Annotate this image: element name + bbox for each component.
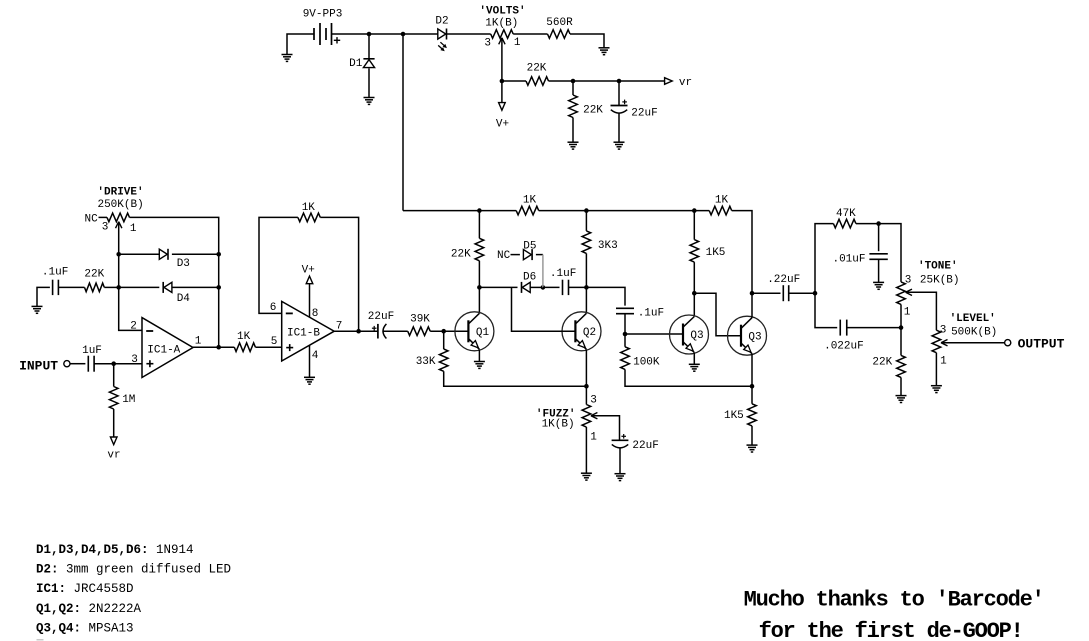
pin 3 FUZZ bbox=[590, 395, 597, 407]
capacitor 1uF input bbox=[88, 356, 94, 372]
svg-text:22uF: 22uF bbox=[631, 108, 657, 120]
label 1K rail right bbox=[715, 195, 729, 207]
svg-text:1: 1 bbox=[590, 432, 597, 444]
wire 560R to ground bbox=[570, 34, 604, 48]
label 22K input leg bbox=[84, 268, 104, 280]
wire Q1 emitter to ground bbox=[478, 349, 480, 361]
junction right rail D4 bbox=[216, 285, 221, 290]
svg-text:22K: 22K bbox=[527, 63, 547, 75]
resistor 3K3 bbox=[582, 231, 591, 254]
svg-text:Q2: Q2 bbox=[583, 327, 596, 339]
capacitor .1uF series bbox=[563, 280, 569, 295]
label 'LEVEL' bbox=[950, 313, 996, 325]
note thanks line 1 bbox=[744, 587, 1044, 612]
ground IC1-B pin4 bbox=[304, 377, 315, 384]
junction Q2 emitter node bbox=[584, 384, 589, 389]
svg-text:1K: 1K bbox=[715, 195, 729, 207]
junction right rail D3 bbox=[216, 252, 221, 257]
resistor 22K divider bbox=[569, 95, 578, 118]
V+ arrow top bbox=[499, 103, 506, 111]
ground battery bbox=[282, 55, 293, 62]
svg-text:1: 1 bbox=[195, 336, 202, 348]
note faint mark bbox=[37, 639, 44, 641]
svg-text:OUTPUT: OUTPUT bbox=[1018, 337, 1065, 352]
label 22K divider bbox=[583, 104, 603, 116]
wire 22K to Q1 collector node bbox=[478, 261, 480, 288]
svg-text:3: 3 bbox=[102, 221, 109, 233]
potentiometer VOLTS 1K(B) bbox=[491, 30, 514, 39]
svg-text:D3: D3 bbox=[177, 258, 190, 270]
junction wiper/D3 bbox=[116, 252, 121, 257]
svg-text:D6: D6 bbox=[523, 271, 536, 283]
label 1K5 Q4 emitter bbox=[724, 410, 744, 422]
svg-text:for the first de-GOOP!: for the first de-GOOP! bbox=[759, 619, 1023, 641]
svg-text:47K: 47K bbox=[836, 208, 856, 220]
pin 5 IC1-B bbox=[271, 336, 278, 348]
label D2 bbox=[435, 16, 448, 28]
svg-text:8: 8 bbox=[312, 308, 319, 320]
label .022uF bbox=[824, 341, 864, 353]
ground Q1 emitter bbox=[474, 362, 485, 369]
label vr top bbox=[679, 77, 692, 89]
wiper arrow VOLTS bbox=[499, 38, 505, 45]
capacitor .1uF interstage bbox=[616, 308, 634, 313]
label 22K Q1 collector bbox=[451, 249, 471, 261]
wire battery negative to ground bbox=[287, 34, 314, 55]
svg-text:V+: V+ bbox=[302, 264, 315, 276]
label Q2 bbox=[583, 327, 596, 339]
label .1uF interstage bbox=[638, 307, 664, 319]
note parts list Q1,Q2: bbox=[36, 602, 142, 616]
wire divider to 22K bbox=[572, 81, 574, 95]
junction Q2 collector node bbox=[584, 285, 589, 290]
svg-text:22K: 22K bbox=[583, 104, 603, 116]
wire Q2 emitter to FUZZ bbox=[585, 386, 587, 404]
svg-text:.22uF: .22uF bbox=[767, 274, 800, 286]
svg-text:2: 2 bbox=[130, 321, 137, 333]
terminal INPUT bbox=[64, 361, 70, 367]
wire 47K to TONE pin3 bbox=[856, 224, 901, 282]
junction 47K/.01uF bbox=[876, 221, 881, 226]
label 22K tone bbox=[872, 357, 892, 369]
svg-text:3: 3 bbox=[131, 354, 138, 366]
wire 22uF to ground bbox=[618, 114, 620, 143]
label .1uF series bbox=[550, 268, 576, 280]
pin 1 VOLTS bbox=[514, 37, 521, 49]
svg-text:1: 1 bbox=[130, 223, 137, 235]
svg-text:1: 1 bbox=[514, 37, 521, 49]
wire .22uF to tone node bbox=[789, 292, 815, 294]
wire D6 to node bbox=[530, 286, 543, 288]
label 1K rail left bbox=[523, 195, 537, 207]
wire VOLTS wiper down bbox=[501, 38, 503, 81]
wire 33K to fuzz bus bbox=[444, 371, 587, 386]
wire .01uF to ground bbox=[878, 259, 880, 282]
label 1K5 Q3 collector bbox=[706, 247, 726, 259]
pin 4 IC1-B bbox=[312, 350, 319, 362]
wire 1K5 to ground bbox=[751, 426, 753, 445]
resistor 39K bbox=[408, 327, 431, 336]
svg-text:D2: D2 bbox=[435, 16, 448, 28]
diode D6 bbox=[522, 282, 531, 293]
svg-text:IC1-B: IC1-B bbox=[287, 327, 320, 339]
svg-text:'VOLTS': 'VOLTS' bbox=[479, 6, 525, 18]
wire node up to 47K bbox=[815, 224, 833, 294]
wire TONE wiper to LEVEL bbox=[906, 292, 937, 330]
pin 3 TONE bbox=[905, 274, 912, 286]
resistor 1K feedback bbox=[298, 213, 320, 222]
wire V+ stub bbox=[501, 81, 503, 103]
transistor Q1 bbox=[455, 312, 494, 351]
wire D1 to ground bbox=[368, 68, 370, 97]
svg-text:3: 3 bbox=[590, 395, 597, 407]
wire D2 to VOLTS pot bbox=[447, 33, 491, 35]
svg-text:1K(B): 1K(B) bbox=[485, 18, 518, 30]
wire Q1 node to D6 bbox=[479, 286, 517, 288]
label V+ IC1-B bbox=[302, 264, 315, 276]
resistor 1M bbox=[109, 387, 118, 410]
label 3K3 bbox=[598, 240, 618, 252]
label 500K(B) bbox=[951, 326, 997, 338]
diode D4 bbox=[163, 282, 172, 293]
wire NC stub DRIVE bbox=[99, 216, 108, 218]
wire supply rail left bbox=[403, 210, 516, 212]
svg-text:1uF: 1uF bbox=[82, 345, 102, 357]
junction TONE pin1 node bbox=[899, 325, 904, 330]
wire node to Q3 base bbox=[625, 333, 683, 335]
potentiometer DRIVE 250K(B) bbox=[107, 213, 130, 222]
junction 22uF node bbox=[617, 79, 622, 84]
pin 1 LEVEL bbox=[940, 356, 947, 368]
svg-text:500K(B): 500K(B) bbox=[951, 326, 997, 338]
resistor 1K rail right bbox=[709, 206, 732, 215]
label 1K(B) FUZZ bbox=[542, 418, 575, 430]
ground D1 bbox=[364, 98, 375, 105]
junction Q1 collector node bbox=[477, 285, 482, 290]
svg-text:'DRIVE': 'DRIVE' bbox=[97, 187, 143, 199]
wire node to 33K bbox=[443, 331, 445, 349]
junction 22K divider node bbox=[571, 79, 576, 84]
wire VOLTS pin1 to 560R bbox=[513, 33, 547, 35]
wire DRIVE pin1 right rail bbox=[130, 217, 219, 347]
wire IC1-B feedback left bbox=[259, 217, 298, 313]
svg-text:Q3,Q4: MPSA13: Q3,Q4: MPSA13 bbox=[36, 621, 134, 635]
note parts list D1,D3,D4,D5,D6: bbox=[36, 543, 194, 557]
wire node to .1uF bbox=[543, 286, 560, 288]
wire 1M to vr bbox=[113, 409, 115, 437]
wire INPUT to 1uF bbox=[70, 363, 85, 365]
svg-text:3: 3 bbox=[905, 274, 912, 286]
wire node down to .022uF bbox=[815, 293, 837, 327]
svg-text:250K(B): 250K(B) bbox=[97, 199, 143, 211]
label 1K(B) VOLTS bbox=[485, 18, 518, 30]
wire Q2 collector bbox=[585, 287, 587, 313]
wire D5 cathode bbox=[536, 254, 543, 256]
vr arrow right bbox=[665, 78, 673, 85]
transistor Q3 bbox=[670, 315, 709, 354]
pin 2 IC1-A bbox=[130, 321, 137, 333]
svg-text:D2: 3mm green diffused LED: D2: 3mm green diffused LED bbox=[36, 563, 231, 577]
diode D5 bbox=[523, 249, 532, 260]
wire .022uF to TONE pin1 node bbox=[847, 327, 901, 329]
resistor 22K tone bbox=[897, 355, 906, 377]
label 'DRIVE' bbox=[97, 187, 143, 199]
label 39K bbox=[410, 314, 430, 326]
label 'TONE' bbox=[918, 261, 958, 273]
svg-text:NC: NC bbox=[84, 214, 98, 226]
junction tone input node bbox=[813, 291, 818, 296]
wiper arrow FUZZ bbox=[591, 413, 598, 419]
svg-text:D1,D3,D4,D5,D6: 1N914: D1,D3,D4,D5,D6: 1N914 bbox=[36, 543, 194, 557]
note parts list IC1: bbox=[36, 582, 134, 596]
wire Q3 collector to Q4 base bbox=[694, 293, 741, 336]
capacitor .1uF input leg bbox=[53, 280, 59, 295]
pin 7 IC1-B bbox=[336, 320, 343, 332]
svg-text:22K: 22K bbox=[872, 357, 892, 369]
wire to .01uF bbox=[878, 224, 880, 252]
label Q3 bbox=[690, 330, 703, 342]
label D3 bbox=[177, 258, 190, 270]
svg-text:.1uF: .1uF bbox=[550, 268, 576, 280]
wire rail to Q4 collector bbox=[732, 211, 752, 294]
wire 1K5 to Q3 collector node bbox=[693, 262, 695, 293]
resistor 1K5 Q3 collector bbox=[690, 240, 699, 263]
label 1K feedback bbox=[302, 202, 316, 214]
svg-text:22K: 22K bbox=[84, 268, 104, 280]
battery BT1 9V-PP3 bbox=[314, 23, 340, 45]
ground 22uF fuzz bbox=[615, 474, 626, 481]
wire Q4 collector bbox=[751, 293, 753, 318]
pin 8 IC1-B bbox=[312, 308, 319, 320]
wire 22K to node bbox=[104, 286, 118, 288]
svg-text:22uF: 22uF bbox=[632, 440, 658, 452]
wire .1uF to Q2 collector node bbox=[569, 286, 587, 288]
wire ground to .1uF bbox=[37, 287, 50, 306]
junction IC1-A output bbox=[216, 345, 221, 350]
wire V+ node to 22K bbox=[502, 80, 526, 82]
svg-text:39K: 39K bbox=[410, 314, 430, 326]
wire pin8 V+ bbox=[309, 284, 311, 318]
wire battery node to supply rail bbox=[402, 34, 404, 211]
resistor 1K5 Q4 emitter bbox=[748, 404, 757, 426]
label 47K bbox=[836, 208, 856, 220]
wire 1K to IC1-B pin5 bbox=[255, 346, 281, 348]
resistor 1K interstage bbox=[234, 343, 255, 352]
label 22uF coupling bbox=[368, 311, 394, 323]
svg-text:NC: NC bbox=[497, 250, 511, 262]
svg-text:33K: 33K bbox=[416, 356, 436, 368]
wiper arrow LEVEL bbox=[941, 340, 948, 346]
label IC1-B bbox=[287, 327, 320, 339]
junction rail Q2 bbox=[584, 208, 589, 213]
wire D5 to D6 node (grey) bbox=[542, 255, 544, 288]
wire pin4 to ground bbox=[309, 345, 311, 377]
junction Q1 base node bbox=[441, 329, 446, 334]
wire Q2 emitter bbox=[585, 349, 587, 386]
junction Q4 emitter node bbox=[750, 384, 755, 389]
resistor 22K Q1 collector bbox=[475, 238, 484, 260]
wire Q3 collector bbox=[693, 293, 695, 316]
junction V+ node bbox=[500, 79, 505, 84]
wire FUZZ pin1 to ground bbox=[585, 427, 587, 473]
pin 6 IC1-B bbox=[270, 302, 277, 314]
wire Q4 collector to .22uF bbox=[752, 292, 781, 294]
capacitor .022uF bbox=[840, 320, 847, 336]
pin 3 LEVEL bbox=[940, 324, 947, 336]
svg-text:IC1-A: IC1-A bbox=[147, 345, 180, 357]
svg-text:Mucho thanks to 'Barcode': Mucho thanks to 'Barcode' bbox=[744, 587, 1044, 612]
svg-text:'LEVEL': 'LEVEL' bbox=[950, 313, 996, 325]
junction Q3 base node bbox=[623, 332, 628, 337]
wire node to 22K tone bbox=[900, 328, 902, 356]
ground LEVEL bbox=[931, 386, 942, 393]
potentiometer LEVEL 500K(B) bbox=[932, 330, 941, 353]
svg-text:.1uF: .1uF bbox=[42, 267, 68, 279]
junction Q3 collector node bbox=[692, 291, 697, 296]
label 'VOLTS' bbox=[479, 6, 525, 18]
capacitor .22uF output bbox=[783, 285, 788, 301]
svg-text:100K: 100K bbox=[633, 356, 660, 368]
svg-text:6: 6 bbox=[270, 302, 277, 314]
wire Q2 node to .1uF interstage bbox=[586, 287, 625, 305]
ground .1uF input bbox=[32, 306, 43, 313]
svg-text:9V-PP3: 9V-PP3 bbox=[303, 9, 343, 21]
svg-text:1: 1 bbox=[904, 307, 911, 319]
transistor Q4 bbox=[728, 316, 767, 355]
potentiometer TONE 25K(B) bbox=[897, 282, 906, 305]
svg-text:560R: 560R bbox=[546, 17, 573, 29]
label 'FUZZ' bbox=[536, 409, 576, 421]
junction D5/D6 node bbox=[541, 285, 546, 290]
note parts list Q3,Q4: bbox=[36, 621, 134, 635]
ground 22K divider bbox=[568, 142, 579, 149]
wire to D3 bbox=[119, 253, 160, 255]
label V+ top bbox=[496, 119, 509, 131]
svg-text:1K: 1K bbox=[523, 195, 537, 207]
svg-text:INPUT: INPUT bbox=[19, 359, 58, 374]
potentiometer FUZZ 1K(B) bbox=[582, 405, 591, 428]
wire supply rail right bbox=[539, 210, 710, 212]
wire IC1-A output bbox=[193, 346, 234, 348]
svg-text:1: 1 bbox=[940, 356, 947, 368]
pin 1 TONE bbox=[904, 307, 911, 319]
svg-text:1M: 1M bbox=[122, 394, 135, 406]
label OUTPUT bbox=[1018, 337, 1065, 352]
label 22K vref series bbox=[527, 63, 547, 75]
ground 560R bbox=[599, 48, 610, 55]
label 22uF vref bbox=[631, 108, 657, 120]
label 1M bbox=[122, 394, 135, 406]
wire 3K3 to Q2 collector node bbox=[585, 253, 587, 287]
wire emitter node to 1K5 bbox=[751, 386, 753, 404]
junction rail Q3 bbox=[692, 208, 697, 213]
note thanks line 2 bbox=[759, 619, 1023, 641]
svg-text:1K5: 1K5 bbox=[706, 247, 726, 259]
junction input bias node bbox=[111, 361, 116, 366]
svg-text:.022uF: .022uF bbox=[824, 341, 864, 353]
svg-text:Q3: Q3 bbox=[748, 331, 761, 343]
svg-text:22K: 22K bbox=[451, 249, 471, 261]
svg-text:Q1: Q1 bbox=[476, 327, 490, 339]
pin 3 IC1-A bbox=[131, 354, 138, 366]
svg-text:5: 5 bbox=[271, 336, 278, 348]
wire DRIVE wiper down bbox=[119, 222, 142, 330]
label D4 bbox=[177, 293, 191, 305]
svg-text:Q1,Q2: 2N2222A: Q1,Q2: 2N2222A bbox=[36, 602, 142, 616]
svg-text:Q3: Q3 bbox=[690, 330, 703, 342]
wiper arrow DRIVE bbox=[116, 222, 122, 229]
wire IC1-B output bbox=[334, 330, 378, 332]
junction IC1-B output bbox=[356, 329, 361, 334]
svg-text:3K3: 3K3 bbox=[598, 240, 618, 252]
op-amp IC1-A bbox=[142, 318, 193, 378]
label 1uF bbox=[82, 345, 102, 357]
label INPUT bbox=[19, 359, 58, 374]
junction rail Q1 bbox=[477, 208, 482, 213]
pin 1 DRIVE bbox=[130, 223, 137, 235]
wire Q4 emitter bbox=[751, 354, 753, 387]
svg-text:1K5: 1K5 bbox=[724, 410, 744, 422]
svg-text:'TONE': 'TONE' bbox=[918, 261, 958, 273]
svg-text:4: 4 bbox=[312, 350, 319, 362]
ground 22K tone bbox=[896, 396, 907, 403]
wiper arrow TONE bbox=[906, 289, 913, 295]
wire 39K to Q1 base bbox=[430, 330, 468, 332]
V+ arrow IC1-B bbox=[306, 276, 313, 284]
label Q4 bbox=[748, 331, 761, 343]
wire 22uF to 39K bbox=[383, 330, 408, 332]
pin 3 VOLTS bbox=[484, 37, 491, 49]
resistor 560R bbox=[548, 30, 571, 39]
svg-text:22uF: 22uF bbox=[368, 311, 394, 323]
wire 1uF to IC1-A pin3 bbox=[94, 363, 142, 365]
resistor 1K rail left bbox=[516, 206, 539, 215]
wire Q3 emitter to ground bbox=[693, 353, 695, 365]
label D5 bbox=[523, 241, 536, 253]
label NC drive bbox=[84, 214, 98, 226]
wire 22K tone to ground bbox=[900, 377, 902, 395]
wire Q1 collector bbox=[478, 287, 480, 313]
svg-text:D1: D1 bbox=[349, 58, 363, 70]
wire node to 22uF bbox=[618, 81, 620, 106]
wire NC stub D5 bbox=[511, 254, 520, 256]
label 22uF fuzz bypass bbox=[632, 440, 658, 452]
junction Q4 collector node bbox=[750, 291, 755, 296]
capacitor 22uF fuzz bypass bbox=[612, 434, 629, 448]
wire D3 to rail bbox=[172, 253, 219, 255]
wire LEVEL pin1 to ground bbox=[935, 353, 937, 386]
svg-text:3: 3 bbox=[484, 37, 491, 49]
LED D2 emission arrows bbox=[438, 42, 447, 51]
wire D4 to rail bbox=[172, 286, 219, 288]
capacitor 22uF coupling bbox=[372, 324, 387, 339]
wire 100K to emitter bus bbox=[625, 369, 752, 386]
junction wiper/D4 bbox=[116, 285, 121, 290]
wire to D4 bbox=[119, 286, 160, 288]
label 100K bbox=[633, 356, 660, 368]
ground .01uF bbox=[873, 282, 884, 289]
label 560R bbox=[546, 17, 573, 29]
label 250K(B) bbox=[97, 199, 143, 211]
ground 1K5 Q4 bbox=[747, 445, 758, 452]
wire .1uF to Q3 base node bbox=[624, 314, 626, 334]
resistor 33K bbox=[439, 349, 448, 371]
label D1 bbox=[349, 58, 363, 70]
label 9V-PP3 bbox=[303, 9, 343, 21]
svg-text:vr: vr bbox=[679, 77, 692, 89]
resistor 22K input leg bbox=[85, 283, 105, 292]
junction battery/rail node bbox=[401, 32, 406, 37]
